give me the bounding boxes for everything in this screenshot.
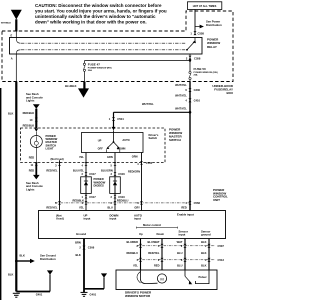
svg-text:input: input — [84, 217, 91, 221]
svg-text:BLU: BLU — [107, 206, 112, 210]
svg-text:Distribution: Distribution — [206, 23, 222, 27]
svg-text:YEL: YEL — [79, 206, 84, 210]
label: driver's switch — [149, 133, 159, 140]
svg-text:C617: C617 — [89, 172, 96, 176]
svg-text:input: input — [110, 217, 117, 221]
svg-text:E: E — [10, 34, 12, 38]
svg-text:GRY: GRY — [134, 206, 140, 210]
svg-text:DIODES: DIODES — [94, 184, 105, 188]
svg-text:RED/YEL: RED/YEL — [46, 206, 58, 210]
svg-text:RED: RED — [29, 155, 35, 159]
connector C506 — [79, 246, 94, 250]
svg-text:YEL: YEL — [79, 155, 84, 159]
control unit output labels — [76, 223, 211, 237]
page edge line — [0, 88, 1, 300]
svg-text:BLK: BLK — [201, 240, 206, 244]
connector C504 pin 10 — [30, 118, 38, 122]
connector C610 lower — [111, 195, 126, 199]
svg-text:UNIT: UNIT — [213, 198, 220, 202]
ground G401 left — [13, 270, 53, 297]
svg-text:WHT/YEL: WHT/YEL — [142, 102, 154, 106]
svg-text:C504: C504 — [117, 117, 124, 121]
connector row C504 bottom pins — [30, 161, 152, 167]
svg-text:UP: UP — [98, 138, 102, 142]
connector row C507 — [136, 244, 224, 248]
svg-text:BLK: BLK — [201, 263, 206, 267]
node: switch feed junction — [189, 111, 192, 114]
label: power window master switch — [169, 127, 183, 142]
svg-text:OFF: OFF — [98, 147, 104, 151]
connector triangle A (battery feed) — [11, 10, 22, 20]
wire: sensor ground — [208, 239, 210, 271]
power window master switch box (dashed) — [21, 128, 166, 163]
svg-text:WHT/YEL: WHT/YEL — [175, 106, 187, 110]
wire: control unit ground — [83, 239, 85, 293]
svg-text:WHT/YEL: WHT/YEL — [175, 94, 187, 98]
svg-text:ORN: ORN — [132, 155, 138, 159]
caution note text — [35, 3, 167, 25]
wire: fuse 47 out to triangle B — [83, 82, 85, 89]
note: see ground distribution with arrow — [16, 254, 56, 264]
under-hood fuse/relay box (dashed) — [2, 11, 233, 82]
svg-text:Switch: Switch — [149, 136, 158, 140]
svg-text:Distribution: Distribution — [40, 257, 56, 261]
svg-text:C610: C610 — [118, 195, 125, 199]
svg-text:C506: C506 — [88, 246, 95, 250]
arrow into switch box — [34, 128, 38, 131]
svg-text:RED: RED — [29, 169, 35, 173]
switch contacts — [106, 130, 119, 152]
wire: relay pin A down (left side) — [15, 54, 17, 82]
driver's power window motor box — [116, 270, 217, 290]
label: power window control unit — [213, 188, 228, 202]
fuse 47 — [83, 62, 111, 81]
svg-text:RED: RED — [154, 263, 160, 267]
svg-text:DOWN: DOWN — [117, 147, 125, 151]
svg-text:RED/BLU: RED/BLU — [126, 251, 138, 255]
wire: switch down output — [114, 153, 116, 211]
svg-text:C330: C330 — [194, 88, 201, 92]
svg-text:Down: Down — [157, 232, 165, 236]
svg-text:C558: C558 — [198, 32, 205, 36]
svg-text:input: input — [179, 233, 186, 237]
svg-text:BLU/BLK: BLU/BLK — [65, 84, 77, 88]
svg-text:HOT AT ALL TIMES: HOT AT ALL TIMES — [193, 4, 217, 8]
wire: switch light return to dash lights — [35, 163, 37, 176]
svg-text:BLU: BLU — [177, 251, 182, 255]
label: power window relay — [207, 37, 220, 49]
svg-text:G401: G401 — [36, 292, 43, 296]
svg-text:BLU/WHT: BLU/WHT — [148, 240, 160, 244]
diode D616 — [110, 177, 121, 194]
svg-text:Pulser: Pulser — [199, 275, 207, 279]
svg-text:C617: C617 — [89, 195, 96, 199]
wire: fuse 50 down main feed — [189, 82, 191, 211]
svg-text:RELAY: RELAY — [207, 45, 217, 49]
connector C617 lower — [82, 195, 97, 199]
svg-text:BLK: BLK — [75, 253, 80, 257]
note: see dash and console lights (switch light feed) — [26, 92, 43, 109]
svg-text:CAUTION: Disconnect the window: CAUTION: Disconnect the window switch co… — [35, 3, 162, 8]
svg-text:RED/BLU: RED/BLU — [117, 199, 129, 203]
svg-text:Ground: Ground — [76, 232, 86, 236]
svg-text:Up: Up — [139, 232, 143, 236]
ground G401 right — [81, 292, 97, 296]
control unit input labels — [56, 213, 194, 221]
note: see dash and console lights — [26, 181, 43, 192]
wire: left ground wire BLK — [15, 82, 17, 292]
svg-text:Lights: Lights — [26, 99, 35, 103]
note: see power distribution with arrow — [195, 20, 222, 29]
fuse 50 — [189, 61, 218, 82]
svg-text:RED/GRN: RED/GRN — [128, 169, 140, 173]
pulser — [185, 270, 209, 284]
label: power window diodes — [94, 177, 106, 187]
svg-text:20A: 20A — [88, 69, 92, 72]
svg-text:BOX: BOX — [226, 91, 233, 95]
hot at all times box — [188, 2, 222, 10]
switch position labels — [98, 138, 130, 151]
relay contact — [186, 38, 196, 51]
svg-text:WHT: WHT — [177, 240, 183, 244]
connector row C566 — [55, 201, 201, 205]
connector C617 — [82, 172, 97, 176]
svg-text:WHT/BLK: WHT/BLK — [1, 23, 12, 25]
bulb: power window master switch light — [30, 132, 42, 163]
svg-text:20A: 20A — [194, 74, 198, 77]
svg-text:SWITCH: SWITCH — [169, 138, 181, 142]
power window control unit box — [39, 211, 226, 239]
svg-text:BLK: BLK — [8, 112, 13, 116]
svg-text:BLK: BLK — [20, 253, 25, 257]
connector triangle B (to passenger window) — [78, 88, 89, 97]
ground riser arrow right — [84, 273, 107, 288]
svg-text:Enable input: Enable input — [177, 213, 194, 217]
svg-text:BLU/RED: BLU/RED — [126, 240, 138, 244]
svg-text:C616: C616 — [118, 172, 125, 176]
driver's switch inner box — [82, 133, 144, 153]
svg-text:RED/BLK: RED/BLK — [23, 111, 35, 115]
svg-text:(Not Used): (Not Used) — [51, 157, 64, 161]
wire: motor down — [161, 239, 163, 271]
connector C504 pin 1 — [109, 117, 124, 121]
svg-text:BLU/GRN: BLU/GRN — [101, 169, 113, 173]
power window relay box — [10, 38, 203, 55]
svg-text:C566: C566 — [194, 201, 201, 205]
wire: not-used stub — [59, 160, 61, 210]
wire: switch up output — [85, 153, 87, 211]
diode D617 — [81, 177, 92, 194]
wire: feed from hot box to relay — [194, 10, 196, 35]
connector C410 — [185, 98, 200, 102]
svg-text:WINDOW MOTOR: WINDOW MOTOR — [125, 294, 151, 298]
wire: switch auto output — [141, 153, 143, 211]
svg-text:BLU/YEL: BLU/YEL — [73, 169, 85, 173]
wire: branch to master switch — [114, 111, 191, 113]
svg-text:C507: C507 — [218, 244, 225, 248]
svg-text:BRN: BRN — [75, 240, 81, 244]
wire: sensor input — [184, 239, 186, 271]
svg-text:ground: ground — [201, 233, 211, 237]
wire: motor up — [140, 239, 142, 271]
svg-text:you start. You could injure yo: you start. You could injure your arms, h… — [35, 9, 167, 14]
connector C616 — [111, 172, 126, 176]
svg-text:Used): Used) — [56, 217, 64, 221]
connector row C513 — [136, 258, 224, 262]
svg-text:WHT/YEL: WHT/YEL — [175, 83, 187, 87]
svg-text:C504: C504 — [146, 161, 153, 165]
svg-text:G401: G401 — [90, 292, 97, 296]
svg-text:BLK: BLK — [8, 272, 13, 276]
svg-text:M: M — [160, 277, 163, 282]
svg-text:Lights: Lights — [26, 187, 35, 191]
node: fuse feed junction — [189, 59, 191, 61]
svg-text:unintentionally switch the dri: unintentionally switch the driver's wind… — [35, 14, 156, 19]
wire: triangle A down to fuse box — [15, 19, 17, 31]
relay internal dash-dot links — [21, 42, 186, 44]
svg-text:AUTO: AUTO — [122, 138, 129, 142]
svg-text:FUSE 47: FUSE 47 — [88, 62, 101, 66]
label: under-hood fuse/relay box — [212, 84, 233, 95]
relay coil link curves — [16, 38, 20, 55]
label: power window master switch light — [46, 134, 58, 151]
label: driver's power window motor — [125, 291, 152, 299]
svg-text:RED/YEL: RED/YEL — [148, 251, 160, 255]
svg-text:FUSE 50: FUSE 50 — [194, 67, 207, 71]
svg-text:down" while working in that do: down" while working in that door with th… — [35, 20, 147, 25]
wire: dash lights to switch light — [35, 109, 37, 128]
pin 1 connector C558 — [190, 31, 204, 35]
svg-text:LIGHT: LIGHT — [46, 147, 54, 151]
svg-text:C410: C410 — [194, 98, 201, 102]
svg-text:C558: C558 — [194, 56, 201, 60]
svg-text:RED/BLK: RED/BLK — [23, 123, 35, 127]
svg-text:RED/YEL: RED/YEL — [46, 169, 58, 173]
svg-text:BLU: BLU — [177, 263, 182, 267]
svg-text:YEL: YEL — [133, 263, 138, 267]
svg-text:Motor control: Motor control — [143, 223, 161, 227]
svg-text:RED: RED — [181, 206, 187, 210]
svg-text:input: input — [134, 217, 141, 221]
node: ground distribution junction — [15, 260, 18, 263]
svg-text:A: A — [11, 56, 13, 60]
motor M — [137, 270, 167, 284]
wire: junction across to fuse 47 — [84, 60, 190, 62]
pin 2 connector C558 — [186, 54, 201, 61]
connector C330 — [185, 88, 200, 92]
svg-text:GRN: GRN — [107, 155, 113, 159]
svg-text:C513: C513 — [218, 258, 225, 262]
arrow into switch — [112, 127, 116, 130]
svg-text:BLK: BLK — [201, 251, 206, 255]
